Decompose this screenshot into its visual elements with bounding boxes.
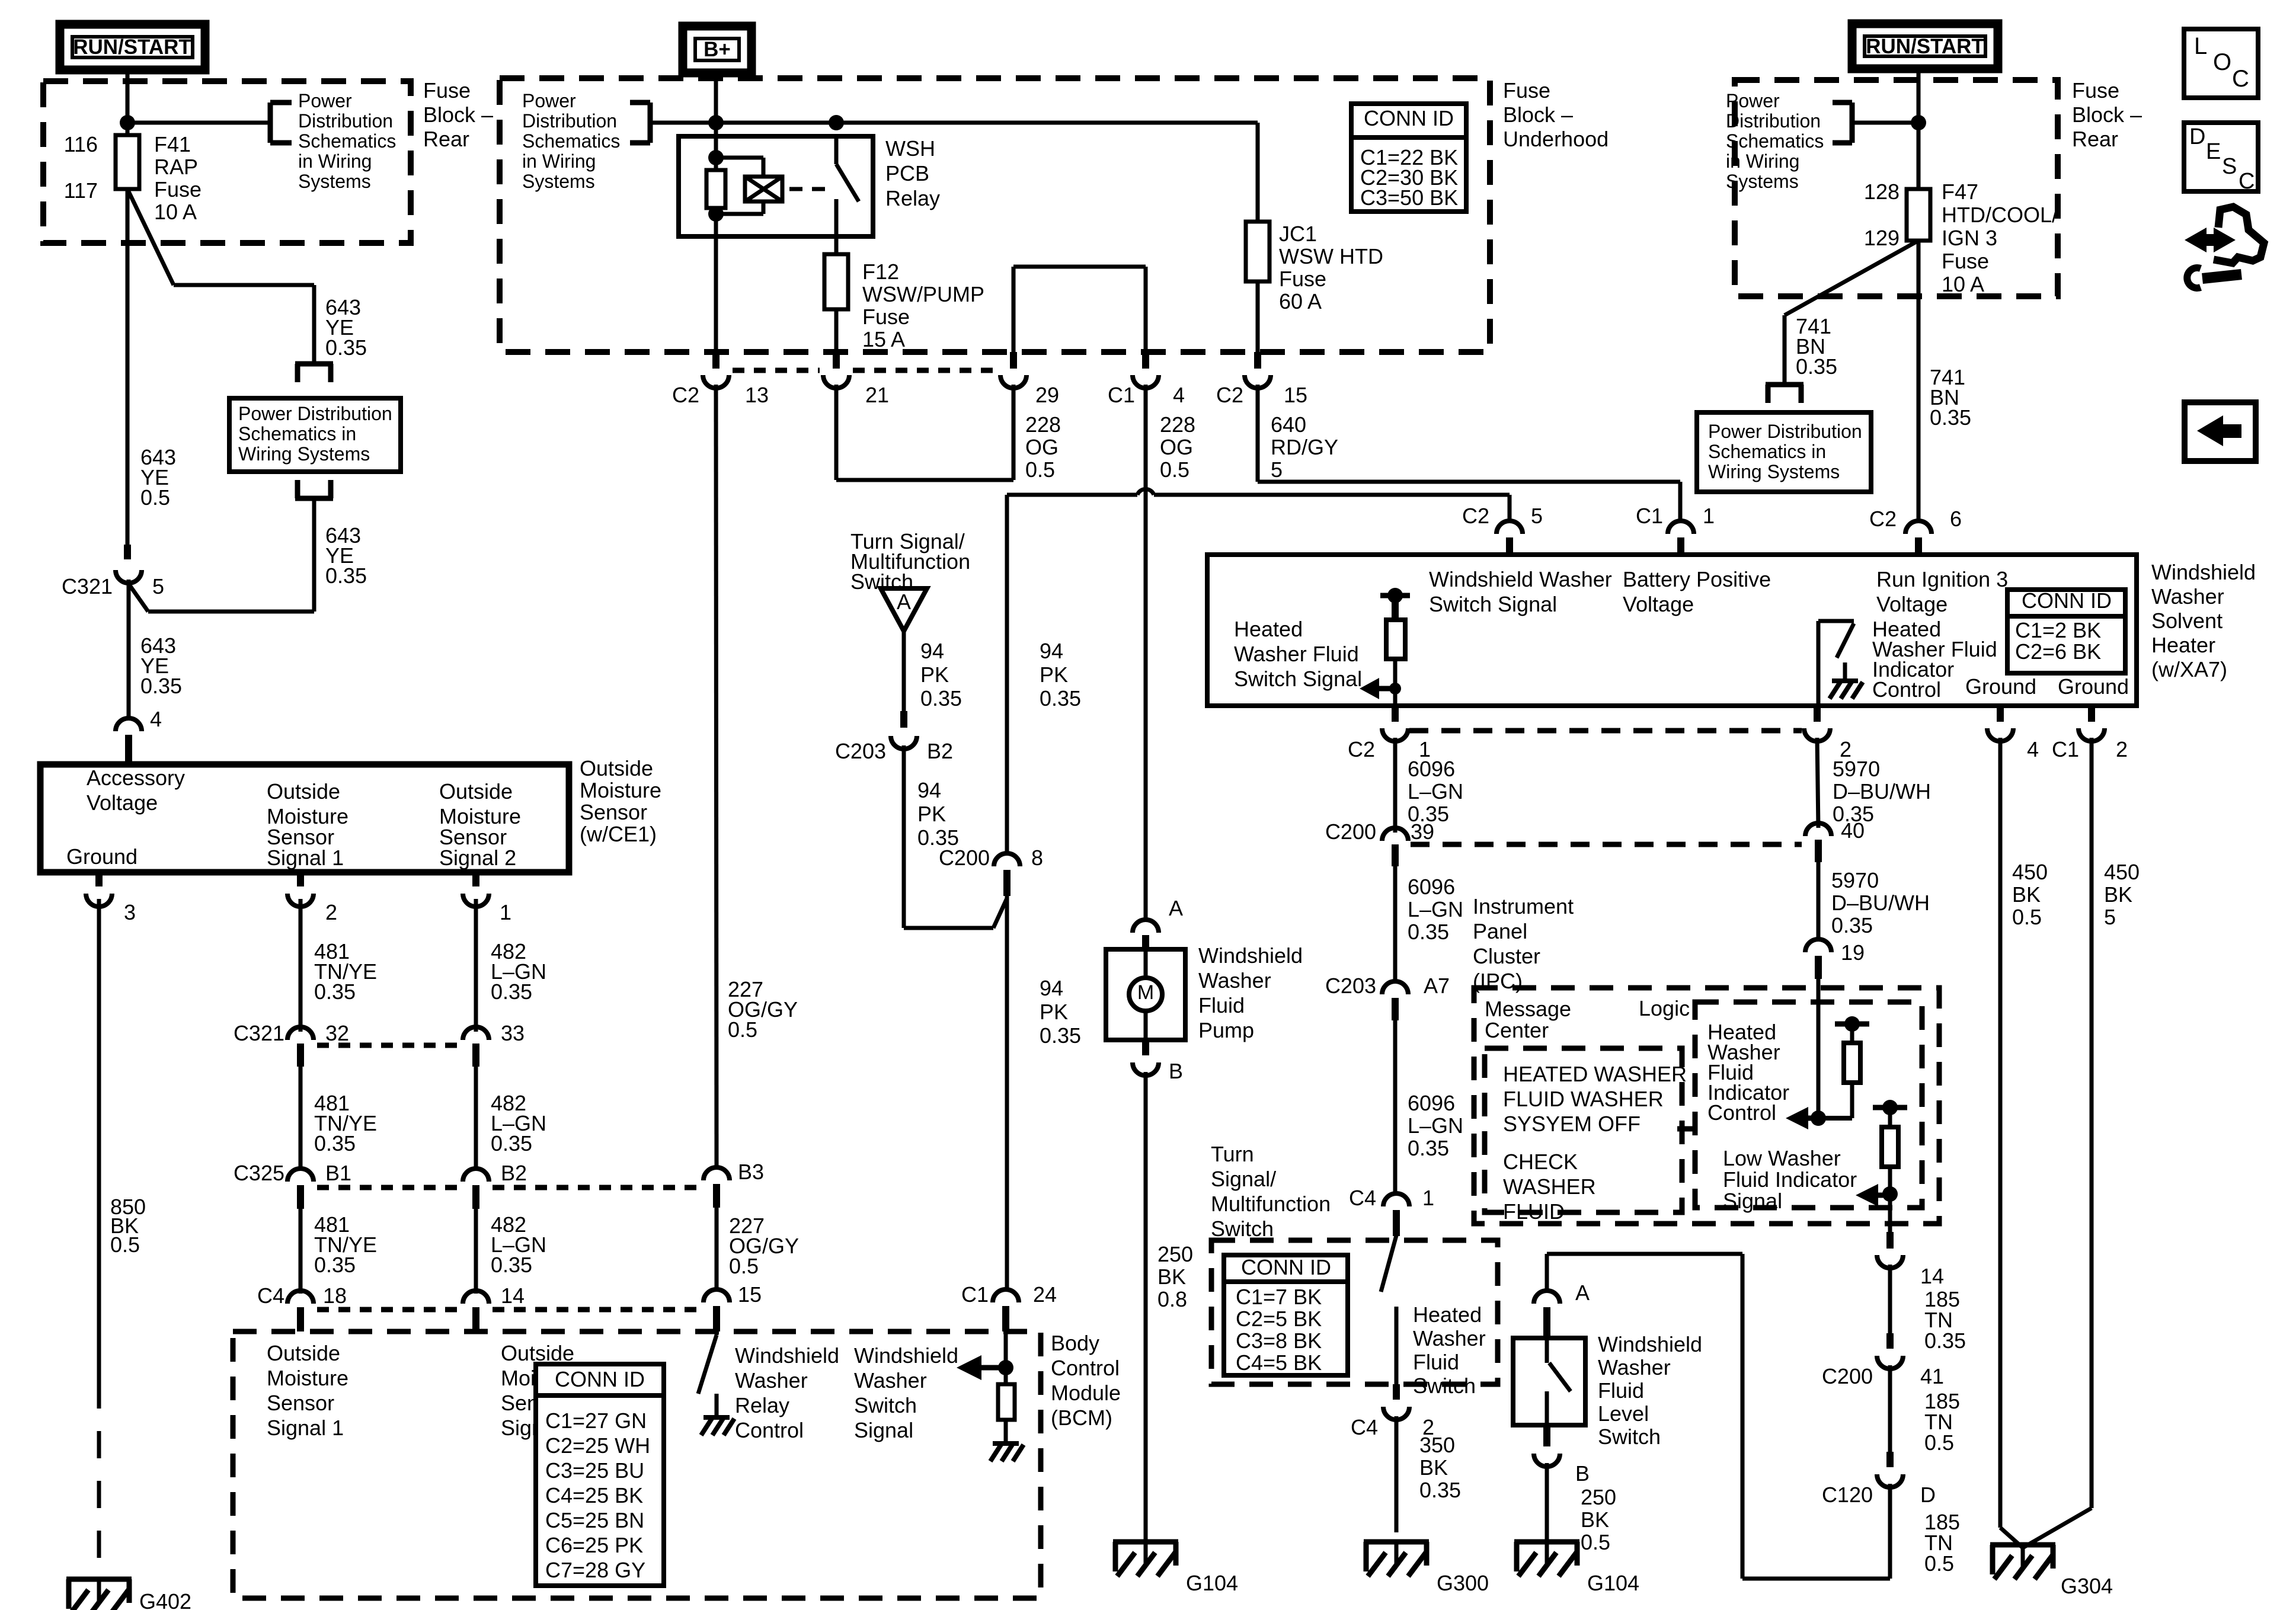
dashed connector line heater C2 (1409, 728, 1802, 734)
svg-text:S: S (2222, 154, 2237, 179)
windshield washer fluid pump box (1106, 949, 1185, 1040)
svg-text:5970: 5970 (1833, 757, 1880, 781)
svg-text:0.8: 0.8 (1157, 1287, 1187, 1311)
wire to level switch pin A (1545, 1254, 1549, 1293)
connector C200 pin 41 (1886, 1333, 1894, 1349)
svg-text:C4: C4 (1349, 1186, 1376, 1210)
connector C325 pin B1 (287, 1169, 314, 1182)
svg-text:C1=7 BK: C1=7 BK (1236, 1285, 1322, 1309)
svg-text:Fluid Indicator: Fluid Indicator (1723, 1167, 1857, 1192)
wire 228 OG from C1-4 to washer pump (1144, 385, 1148, 908)
connector C4 pin 14 (463, 1291, 489, 1304)
svg-text:Level: Level (1598, 1401, 1649, 1426)
svg-text:WSW HTD: WSW HTD (1279, 244, 1383, 268)
svg-text:B3: B3 (738, 1160, 764, 1184)
svg-text:5: 5 (152, 574, 164, 598)
svg-text:IGN 3: IGN 3 (1942, 226, 1997, 250)
connector C2 pin 6 (1905, 521, 1932, 534)
relay WSH PCB box (679, 136, 873, 236)
svg-text:39: 39 (1411, 820, 1434, 844)
wire 643 YE 0.35 from PD box to connector C321 (312, 498, 316, 612)
svg-text:0.35: 0.35 (140, 674, 182, 698)
wire 6096 L-GN to turn signal switch (1393, 1016, 1398, 1195)
svg-text:5: 5 (1531, 504, 1543, 528)
wire 481 TN/YE signal1 (299, 899, 303, 1032)
sensor signal1 pin 2 (297, 872, 304, 886)
svg-text:24: 24 (1033, 1282, 1057, 1307)
svg-text:Washer: Washer (854, 1368, 927, 1393)
svg-text:14: 14 (1920, 1264, 1944, 1288)
svg-text:4: 4 (1173, 383, 1185, 407)
svg-text:Signal 1: Signal 1 (267, 1416, 344, 1440)
svg-text:E: E (2206, 139, 2221, 164)
wire 450 BK 5 heater ground (2090, 738, 2094, 1508)
connector pin A level switch (1534, 1291, 1560, 1304)
svg-text:15 A: 15 A (862, 327, 905, 351)
body control module BCM dashed box (233, 1331, 1041, 1598)
svg-text:6096: 6096 (1408, 875, 1455, 899)
svg-text:G300: G300 (1437, 1571, 1489, 1595)
svg-text:Outside: Outside (501, 1341, 574, 1365)
wire 185 TN to washer fluid level switch (1888, 1484, 1892, 1579)
ground G402 (66, 1577, 132, 1582)
svg-text:Low Washer: Low Washer (1723, 1146, 1841, 1170)
svg-text:C1: C1 (2052, 737, 2079, 761)
svg-text:Schematics: Schematics (298, 130, 396, 152)
svg-text:Control: Control (1872, 677, 1941, 702)
svg-text:Windshield: Windshield (1598, 1332, 1702, 1356)
icon back arrow box (2185, 402, 2256, 461)
connector C2 pin 1 (6096) (1392, 706, 1399, 722)
svg-text:Systems: Systems (522, 171, 595, 192)
connector pin B level switch (1543, 1425, 1550, 1446)
wire hop over pump feed (1137, 489, 1154, 495)
svg-text:B2: B2 (927, 739, 953, 763)
svg-text:Outside: Outside (267, 779, 340, 804)
svg-text:C200: C200 (939, 846, 990, 870)
svg-text:Voltage: Voltage (1876, 592, 1948, 616)
svg-text:Voltage: Voltage (1623, 592, 1694, 616)
icon DESC box (2184, 123, 2258, 191)
dotted connector line C325 (317, 1185, 461, 1190)
connector C203 pin B2 (900, 711, 907, 728)
svg-text:G304: G304 (2061, 1574, 2113, 1598)
svg-text:2: 2 (325, 900, 337, 924)
svg-text:Wiring Systems: Wiring Systems (238, 443, 370, 465)
svg-text:0.35: 0.35 (325, 335, 367, 360)
svg-text:1: 1 (1422, 1186, 1434, 1210)
svg-text:0.35: 0.35 (314, 980, 356, 1004)
connector C2 pin 2 (5970) (1814, 706, 1821, 722)
connector C321 pin 5 (124, 545, 131, 559)
wire 250 BK level switch ground (1545, 1463, 1549, 1541)
arrow low washer fluid indicator signal (1856, 1184, 1878, 1206)
svg-text:Control: Control (735, 1418, 804, 1442)
connector C1 pin 24 (993, 1289, 1019, 1302)
svg-text:Distribution: Distribution (298, 110, 393, 132)
wire 227 OG/GY from connector 13 (716, 385, 717, 1170)
svg-text:A: A (1575, 1281, 1590, 1305)
svg-text:Washer: Washer (735, 1368, 808, 1393)
svg-text:0.5: 0.5 (729, 1254, 759, 1278)
svg-text:C321: C321 (62, 574, 113, 598)
wire 741 BN branch to power distribution (1785, 241, 1918, 315)
icon LOC box (2184, 29, 2258, 98)
svg-text:18: 18 (323, 1283, 347, 1308)
power label RUN/START (left) (60, 24, 205, 70)
svg-text:BK: BK (1419, 1455, 1448, 1480)
relay actuating dashed link (789, 187, 829, 191)
svg-text:13: 13 (745, 383, 769, 407)
svg-text:JC1: JC1 (1279, 222, 1317, 246)
svg-text:Switch Signal: Switch Signal (1429, 592, 1557, 616)
svg-text:in Wiring: in Wiring (298, 151, 372, 172)
svg-text:FLUID WASHER: FLUID WASHER (1503, 1087, 1664, 1111)
svg-text:Panel: Panel (1473, 919, 1527, 943)
svg-text:Fuse: Fuse (1503, 78, 1550, 103)
CONN ID table BCM (536, 1364, 664, 1586)
svg-text:Relay: Relay (735, 1393, 789, 1417)
fuse block - rear dashed box (right) (1735, 80, 2058, 296)
svg-text:Signal: Signal (854, 1418, 913, 1442)
svg-text:OG: OG (1160, 435, 1193, 459)
svg-text:Control: Control (1051, 1356, 1120, 1380)
svg-text:Signal: Signal (1723, 1189, 1782, 1213)
svg-text:94: 94 (1040, 639, 1063, 663)
svg-text:Rear: Rear (2072, 127, 2118, 151)
connector pin 29 (1010, 352, 1017, 369)
wire bus to JC1 (1256, 123, 1260, 352)
svg-text:0.35: 0.35 (1924, 1329, 1966, 1353)
svg-text:Fuse: Fuse (862, 305, 910, 329)
svg-text:4: 4 (150, 707, 162, 731)
relay resistor (706, 170, 725, 208)
connector C120 pin D (1886, 1452, 1894, 1467)
connector C321 pin 33 (463, 1027, 489, 1040)
svg-text:640: 640 (1271, 412, 1306, 437)
svg-text:PK: PK (1040, 1000, 1068, 1024)
dotted connector line C4 (317, 1307, 461, 1313)
svg-text:C1=2 BK: C1=2 BK (2015, 618, 2101, 642)
svg-text:4: 4 (2027, 737, 2039, 761)
svg-text:Fuse: Fuse (154, 177, 202, 201)
ground G300 (1364, 1539, 1429, 1545)
svg-text:94: 94 (920, 639, 944, 663)
wire 94 PK from triangle A (902, 631, 906, 711)
fuse JC1 WSW HTD 60A (1246, 222, 1269, 281)
svg-text:L–GN: L–GN (1408, 897, 1463, 921)
svg-text:0.5: 0.5 (1924, 1551, 1954, 1576)
svg-text:L–GN: L–GN (1408, 1113, 1463, 1138)
svg-text:Control: Control (1707, 1100, 1776, 1125)
svg-text:Outside: Outside (267, 1341, 340, 1365)
svg-text:F12: F12 (862, 260, 899, 284)
svg-text:350: 350 (1419, 1433, 1455, 1457)
svg-text:450: 450 (2104, 860, 2140, 884)
wire 643 YE 0.35 down to sensor (127, 580, 131, 718)
svg-text:CHECK: CHECK (1503, 1150, 1578, 1174)
icon service tool with double arrow (2185, 228, 2207, 252)
turn signal multifunction switch dashed box (1211, 1240, 1498, 1384)
instrument panel cluster dashed box (1474, 988, 1939, 1224)
connector C325 pin B2 (463, 1169, 489, 1182)
svg-text:Outside: Outside (580, 756, 653, 780)
connector pin B washer pump (1142, 1040, 1149, 1055)
svg-text:0.5: 0.5 (728, 1017, 757, 1042)
connector C4 pin 18 (287, 1291, 314, 1304)
heater indicator control driver switch (1817, 621, 1821, 706)
reference bracket to Power Distribution Schematics (270, 100, 292, 105)
svg-text:15: 15 (1284, 383, 1307, 407)
svg-text:6096: 6096 (1408, 757, 1455, 781)
svg-text:PCB: PCB (885, 161, 929, 185)
internal jumper 29 to C1-4 (1012, 267, 1016, 352)
svg-text:Fuse: Fuse (423, 78, 471, 103)
svg-text:0.35: 0.35 (1040, 686, 1081, 710)
pump motor M (1144, 949, 1148, 978)
svg-text:Cluster: Cluster (1473, 944, 1540, 968)
svg-text:Center: Center (1485, 1018, 1549, 1042)
svg-text:B2: B2 (501, 1161, 527, 1185)
svg-text:C4: C4 (257, 1283, 284, 1308)
junction B+ bus at relay (708, 115, 724, 130)
ground G104 right (1514, 1539, 1579, 1545)
svg-text:33: 33 (501, 1021, 525, 1045)
svg-text:0.35: 0.35 (325, 564, 367, 588)
svg-text:Fuse: Fuse (1942, 249, 1989, 273)
svg-text:Windshield: Windshield (735, 1343, 839, 1368)
svg-text:Distribution: Distribution (1726, 110, 1821, 132)
svg-text:19: 19 (1841, 940, 1865, 965)
dotted connector line C321 (317, 1043, 461, 1048)
svg-text:D: D (1920, 1483, 1936, 1507)
svg-text:RUN/START: RUN/START (73, 36, 191, 59)
svg-text:C3=25 BU: C3=25 BU (545, 1458, 644, 1483)
svg-text:2: 2 (2116, 737, 2128, 761)
svg-text:HEATED WASHER: HEATED WASHER (1503, 1062, 1687, 1086)
svg-text:Power: Power (298, 90, 352, 111)
CONN ID table turn signal (1224, 1255, 1348, 1375)
svg-text:A: A (1169, 896, 1183, 920)
wire 6096 L-GN to C203 (1393, 862, 1398, 984)
svg-text:1: 1 (1703, 504, 1715, 528)
svg-text:Wiring Systems: Wiring Systems (1708, 461, 1840, 482)
svg-text:0.5: 0.5 (2012, 905, 2042, 929)
wire B+ bus (714, 73, 718, 136)
heated washer fluid indicator (IPC) (1835, 1022, 1869, 1027)
wire 450 BK 0.5 heater ground (1998, 738, 2003, 1528)
svg-text:Power: Power (522, 90, 576, 111)
wire to power distribution reference (127, 121, 270, 125)
wire 94 PK riser to washer switch signal (1005, 495, 1009, 852)
heater ground pin 4 (1997, 706, 2004, 722)
svg-text:C120: C120 (1822, 1483, 1873, 1507)
svg-text:0.5: 0.5 (1025, 457, 1055, 482)
reference bracket (right) (1833, 100, 1852, 105)
svg-text:D: D (2189, 124, 2205, 149)
svg-text:PK: PK (1040, 662, 1068, 687)
outside moisture sensor box (40, 764, 569, 872)
connector C1 pin 1 heater (1668, 521, 1694, 534)
svg-text:C3=50 BK: C3=50 BK (1360, 185, 1458, 210)
svg-text:0.5: 0.5 (1160, 457, 1189, 482)
svg-text:Heated: Heated (1234, 617, 1303, 641)
svg-text:Switch: Switch (1598, 1425, 1661, 1449)
bracket into power distribution box (right) (1766, 382, 1803, 388)
svg-text:Power Distribution: Power Distribution (238, 403, 392, 424)
svg-text:0.5: 0.5 (110, 1233, 140, 1257)
wire 5970 D-BU/WH to IPC pin 19 (1817, 857, 1821, 942)
logic-message link (1677, 1126, 1697, 1132)
svg-text:Washer: Washer (1198, 968, 1271, 993)
svg-text:C200: C200 (1822, 1364, 1873, 1388)
connector C200 pin 39 (1382, 828, 1408, 841)
svg-text:Instrument: Instrument (1473, 894, 1574, 918)
windshield washer fluid level switch box (1513, 1338, 1585, 1425)
svg-text:6: 6 (1950, 507, 1962, 531)
wire 94 PK below B2 (902, 745, 906, 928)
svg-text:C2: C2 (672, 383, 699, 407)
svg-text:C2=6 BK: C2=6 BK (2015, 639, 2101, 664)
svg-text:0.35: 0.35 (314, 1131, 356, 1156)
svg-text:Windshield: Windshield (1198, 943, 1303, 968)
low washer fluid indicator (IPC) (1873, 1105, 1907, 1110)
svg-text:A7: A7 (1424, 974, 1450, 998)
svg-text:Fluid: Fluid (1198, 993, 1245, 1017)
svg-text:C2: C2 (1216, 383, 1243, 407)
connector pin 15 BCM (703, 1289, 730, 1302)
svg-text:B+: B+ (703, 38, 731, 61)
svg-text:F41: F41 (154, 132, 191, 156)
svg-text:116: 116 (64, 132, 98, 156)
BCM washer switch signal input (1004, 1331, 1008, 1384)
connector C2 pin 5 heater (1496, 521, 1523, 534)
svg-text:0.35: 0.35 (1930, 405, 1971, 430)
svg-text:C2=5 BK: C2=5 BK (1236, 1307, 1322, 1331)
svg-text:0.35: 0.35 (1796, 354, 1837, 379)
wire from relay 87 to connector 13 (714, 236, 718, 352)
svg-text:C3=8 BK: C3=8 BK (1236, 1329, 1322, 1353)
sensor signal2 pin 1 (472, 872, 479, 886)
svg-text:60 A: 60 A (1279, 289, 1322, 313)
svg-text:40: 40 (1841, 818, 1865, 843)
connector C2 pin 15 (1254, 352, 1261, 369)
svg-text:C2: C2 (1462, 504, 1489, 528)
svg-text:Windshield: Windshield (854, 1343, 958, 1368)
svg-text:C7=28 GY: C7=28 GY (545, 1558, 645, 1582)
svg-text:Logic: Logic (1639, 996, 1690, 1020)
fuse F47 HTD/COOL/IGN3 10A (1907, 189, 1930, 241)
wire 640 RD/GY from pin15 to heater (1256, 385, 1260, 482)
svg-text:A: A (897, 590, 911, 614)
wire 227 OG/GY to BCM pin 15 (715, 1202, 719, 1292)
svg-text:15: 15 (738, 1282, 762, 1307)
svg-text:F47: F47 (1942, 180, 1978, 204)
wire 482 L-GN signal2 (474, 899, 478, 1032)
svg-text:0.35: 0.35 (1831, 913, 1873, 937)
svg-text:Power Distribution: Power Distribution (1708, 421, 1862, 442)
svg-text:Washer Fluid: Washer Fluid (1234, 642, 1359, 666)
svg-text:CONN ID: CONN ID (1241, 1255, 1331, 1279)
relay internal feed wire (714, 136, 718, 236)
svg-text:Voltage: Voltage (87, 790, 158, 815)
svg-text:C4=5 BK: C4=5 BK (1236, 1350, 1322, 1375)
wire RUN/START to fuse F47 (1917, 69, 1921, 189)
connector C203 pin A7 (1382, 981, 1408, 994)
svg-text:0.35: 0.35 (1408, 1136, 1449, 1160)
arrow washer switch signal (957, 1355, 981, 1380)
svg-text:Windshield Washer: Windshield Washer (1429, 567, 1612, 591)
svg-text:Moisture: Moisture (267, 1366, 348, 1390)
fuse block - rear dashed box (left) (43, 81, 411, 243)
svg-text:117: 117 (64, 178, 98, 203)
connector pin B3 (703, 1167, 730, 1180)
CONN ID table heater (2007, 590, 2125, 673)
svg-text:RUN/START: RUN/START (1866, 35, 1984, 58)
svg-text:Signal/: Signal/ (1211, 1167, 1276, 1191)
svg-text:Block –: Block – (2072, 103, 2142, 127)
svg-text:in Wiring: in Wiring (522, 151, 596, 172)
arrow heated washer fluid indicator control (1786, 1107, 1808, 1129)
connector C200 pin 8 (994, 853, 1020, 866)
fuse F12 WSW/PUMP 15A (824, 254, 848, 309)
connector pin 4 into moisture sensor (116, 718, 142, 731)
svg-text:(w/XA7): (w/XA7) (2151, 657, 2227, 681)
svg-text:0.35: 0.35 (1419, 1478, 1461, 1502)
svg-text:Battery Positive: Battery Positive (1623, 567, 1771, 591)
fuse block - underhood dashed box (500, 78, 1490, 352)
svg-text:3: 3 (124, 900, 136, 924)
svg-text:Message: Message (1485, 997, 1571, 1021)
svg-text:RAP: RAP (154, 155, 198, 179)
svg-text:BK: BK (2104, 882, 2132, 907)
svg-text:14: 14 (501, 1283, 525, 1308)
svg-text:C321: C321 (234, 1021, 284, 1045)
svg-text:0.35: 0.35 (1408, 920, 1449, 944)
ground G104 left (pump) (1113, 1539, 1178, 1545)
power distribution schematics box (left) (229, 398, 401, 472)
connector C4 pin 2 (1393, 1384, 1400, 1400)
svg-text:C2=25 WH: C2=25 WH (545, 1433, 650, 1458)
heated washer fluid switch contact (1395, 1231, 1399, 1235)
message center dashed box (1485, 1048, 1682, 1212)
wire 643 YE 0.5 diagonal from fuse to PD reference (127, 189, 174, 285)
svg-text:WSW/PUMP: WSW/PUMP (862, 282, 984, 306)
svg-text:Schematics in: Schematics in (238, 423, 356, 444)
svg-text:0.35: 0.35 (314, 1253, 356, 1277)
svg-text:B1: B1 (325, 1161, 351, 1185)
svg-text:Relay: Relay (885, 186, 940, 210)
svg-text:HTD/COOL/: HTD/COOL/ (1942, 203, 2058, 227)
svg-text:Ground: Ground (2058, 674, 2129, 699)
svg-text:Pump: Pump (1198, 1018, 1254, 1042)
svg-text:129: 129 (1864, 226, 1900, 250)
svg-text:0.5: 0.5 (140, 485, 170, 510)
svg-text:D–BU/WH: D–BU/WH (1831, 891, 1930, 915)
svg-text:Sensor: Sensor (580, 800, 647, 824)
svg-text:Accessory: Accessory (87, 766, 185, 790)
svg-text:Multifunction: Multifunction (1211, 1192, 1331, 1216)
svg-text:C: C (2232, 66, 2249, 92)
CONN ID table underhood (1351, 104, 1466, 212)
svg-text:Solvent: Solvent (2151, 609, 2223, 633)
svg-text:10 A: 10 A (1942, 272, 1984, 296)
svg-text:CONN ID: CONN ID (2022, 588, 2112, 613)
power label B+ (683, 26, 752, 73)
svg-text:WASHER: WASHER (1503, 1174, 1596, 1199)
svg-text:C203: C203 (835, 739, 886, 763)
svg-text:Switch Signal: Switch Signal (1234, 667, 1362, 691)
